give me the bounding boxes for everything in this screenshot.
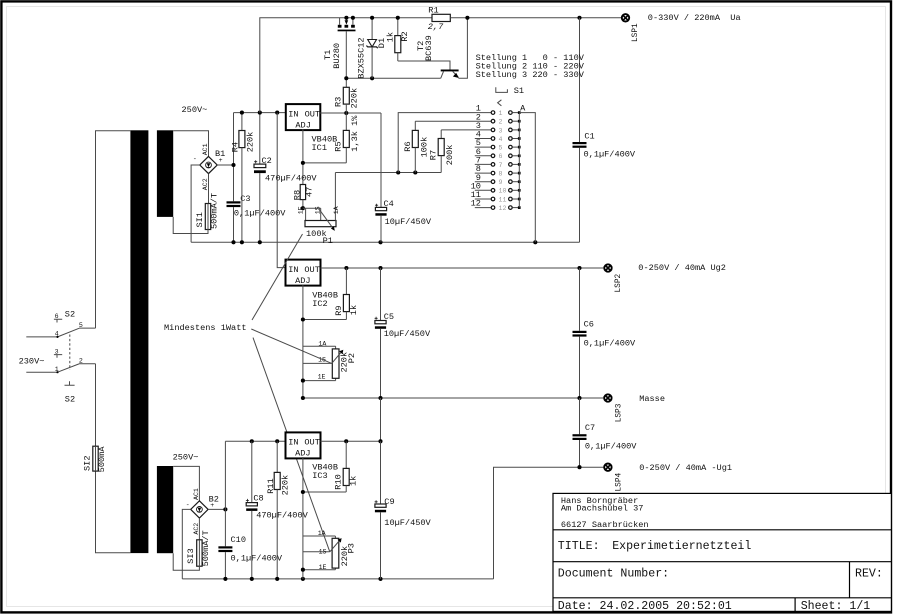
regulator IC2 VB40B bbox=[286, 260, 321, 286]
svg-text:230V~: 230V~ bbox=[19, 357, 45, 367]
svg-text:C6: C6 bbox=[584, 320, 594, 330]
svg-text:Masse: Masse bbox=[639, 394, 665, 404]
svg-text:1E: 1E bbox=[298, 206, 305, 214]
junction bus2 C9 bbox=[378, 577, 382, 581]
wire B1 AC2 to fuse SI1 bbox=[208, 174, 210, 204]
svg-text:TITLE:: TITLE: bbox=[558, 540, 600, 553]
svg-text:Am Dachshübel 37: Am Dachshübel 37 bbox=[561, 503, 644, 513]
svg-text:AC1: AC1 bbox=[202, 143, 209, 155]
switch S2 upper section bbox=[26, 319, 95, 338]
svg-text:R10: R10 bbox=[334, 474, 344, 489]
junction bus C4 bbox=[378, 240, 382, 244]
svg-text:BZX55C12: BZX55C12 bbox=[356, 37, 366, 78]
rail bottom supply bbox=[225, 440, 285, 442]
svg-text:500mA/T: 500mA/T bbox=[201, 530, 211, 566]
svg-text:0,1µF/400V: 0,1µF/400V bbox=[231, 554, 283, 564]
svg-text:R11: R11 bbox=[266, 478, 276, 493]
svg-text:S2: S2 bbox=[65, 395, 75, 405]
svg-text:C7: C7 bbox=[585, 423, 595, 433]
junction gate D1 bbox=[370, 76, 374, 80]
svg-text:P2: P2 bbox=[347, 353, 357, 363]
wire R5 bottom to ADJ bbox=[303, 162, 346, 164]
svg-text:47: 47 bbox=[305, 187, 315, 197]
resistor R9 bbox=[343, 268, 349, 320]
svg-text:S2: S2 bbox=[65, 310, 75, 320]
junction LSP4 C7 bbox=[577, 465, 581, 469]
zener diode D1 BZX55C12 bbox=[366, 18, 377, 79]
label C4 plus mark bbox=[375, 204, 378, 207]
svg-text:10µF/450V: 10µF/450V bbox=[384, 518, 431, 528]
label C9 plus mark bbox=[375, 500, 378, 503]
S1 contact 7 bbox=[475, 156, 521, 169]
junction bus2 C8 bbox=[250, 577, 254, 581]
wire plus riser2 bbox=[224, 441, 226, 546]
junction OUT2 C5 bbox=[378, 266, 382, 270]
junction gate R3 bbox=[344, 76, 348, 80]
svg-text:Date: 24.02.2005 20:52:01: Date: 24.02.2005 20:52:01 bbox=[558, 600, 732, 613]
svg-text:1A: 1A bbox=[318, 530, 326, 537]
svg-text:IC1: IC1 bbox=[312, 143, 327, 153]
capacitor C3 bbox=[227, 201, 241, 242]
wire B2 AC2 to fuse SI3 bbox=[198, 518, 200, 540]
switch S1 rotary selector bbox=[496, 87, 508, 106]
switch S2 lower section bbox=[26, 355, 95, 386]
svg-text:R8: R8 bbox=[292, 190, 302, 200]
svg-text:+: + bbox=[210, 502, 214, 509]
svg-text:1E: 1E bbox=[318, 374, 326, 381]
svg-text:OUT: OUT bbox=[304, 265, 319, 275]
svg-text:LSP4: LSP4 bbox=[615, 472, 623, 491]
svg-text:1A: 1A bbox=[318, 340, 326, 347]
fuse SI3 bbox=[197, 540, 202, 566]
svg-text:470µF/400V: 470µF/400V bbox=[265, 173, 317, 183]
S1 contact 8 bbox=[475, 164, 521, 177]
wire IC2 OUT to LSP2 bbox=[321, 267, 605, 269]
svg-text:IC3: IC3 bbox=[312, 471, 327, 481]
svg-text:10µF/450V: 10µF/450V bbox=[384, 329, 431, 339]
svg-text:1A: 1A bbox=[333, 206, 340, 214]
terminal LSP1 bbox=[622, 14, 629, 21]
svg-text:250V~: 250V~ bbox=[182, 105, 208, 115]
label C8 plus mark bbox=[246, 499, 249, 502]
junction ADJ3 P3 E bbox=[301, 568, 305, 572]
capacitor C2 bbox=[254, 113, 266, 243]
junction rail2 R11 bbox=[275, 439, 279, 443]
S1 contact 3 bbox=[441, 121, 520, 134]
svg-text:8: 8 bbox=[499, 171, 503, 178]
svg-text:200k: 200k bbox=[445, 145, 455, 166]
wire IC1 ADJ bbox=[302, 129, 304, 185]
svg-text:C5: C5 bbox=[384, 312, 394, 322]
junction top R2 bbox=[396, 16, 400, 20]
wire rail riser to top bbox=[260, 18, 433, 113]
capacitor C6 bbox=[573, 268, 587, 398]
wire fuse SI1 to secondary1 bottom bbox=[173, 217, 208, 234]
svg-text:10µF/450V: 10µF/450V bbox=[385, 217, 432, 227]
svg-text:7: 7 bbox=[499, 162, 503, 169]
wire B2 minus to bus2 bbox=[182, 509, 190, 579]
junction Masse C5 C9 riser bbox=[378, 396, 382, 400]
resistor R1 horizontal bbox=[432, 14, 622, 21]
resistor R4 bbox=[239, 113, 245, 243]
svg-text:1k: 1k bbox=[349, 305, 359, 315]
svg-text:REV:: REV: bbox=[855, 568, 883, 581]
svg-text:12: 12 bbox=[499, 205, 507, 212]
resistor R10 bbox=[343, 441, 349, 492]
transformer TR1 secondary winding 1 bbox=[157, 130, 173, 217]
svg-text:R7: R7 bbox=[429, 150, 439, 160]
svg-text:9: 9 bbox=[499, 179, 503, 186]
transformer TR1 secondary winding 2 bbox=[157, 466, 173, 553]
svg-text:R1: R1 bbox=[428, 5, 438, 15]
resistor R7 bbox=[438, 130, 444, 173]
resistor R6 bbox=[412, 121, 418, 172]
junction bus S1 common bbox=[533, 240, 537, 244]
wire B1 plus bbox=[217, 164, 233, 166]
junction ADJ2 P2 E bbox=[301, 379, 305, 383]
svg-text:C9: C9 bbox=[384, 497, 394, 507]
junction plus node2 bbox=[223, 507, 227, 511]
resistor R11 bbox=[274, 441, 280, 579]
svg-text:LSP1: LSP1 bbox=[632, 23, 640, 42]
svg-text:6: 6 bbox=[499, 153, 503, 160]
junction bus2 R11 bbox=[275, 577, 279, 581]
junction top T1 middle bbox=[344, 16, 348, 20]
wire IC3 OUT bbox=[321, 440, 381, 442]
svg-text:R6: R6 bbox=[403, 141, 413, 151]
svg-text:SI1: SI1 bbox=[195, 212, 205, 227]
junction bus C3 bbox=[231, 240, 235, 244]
svg-text:AC1: AC1 bbox=[193, 488, 200, 500]
junction ADJ2 R9 bbox=[301, 317, 305, 321]
pointer line to P1 bbox=[252, 234, 303, 320]
wire B2 plus bbox=[208, 508, 225, 510]
wire secondary1 top to bridge B1 bbox=[173, 131, 208, 157]
svg-text:0,1µF/400V: 0,1µF/400V bbox=[585, 442, 637, 452]
bus minus bottom supply bbox=[182, 578, 493, 580]
wire primary bottom bbox=[96, 471, 131, 553]
svg-text:1k: 1k bbox=[349, 476, 359, 486]
S1 common bus bbox=[518, 113, 520, 208]
wire IC1 OUT bbox=[320, 112, 381, 114]
terminal LSP3 bbox=[604, 394, 611, 401]
junction bus2 P3 bbox=[301, 577, 305, 581]
svg-text:-: - bbox=[193, 156, 197, 163]
S1 contact 5 bbox=[475, 138, 521, 151]
junction OUT2 C6 bbox=[577, 266, 581, 270]
svg-text:SI3: SI3 bbox=[186, 548, 196, 563]
svg-text:0-250V / 40mA -Ug1: 0-250V / 40mA -Ug1 bbox=[639, 463, 732, 473]
svg-text:220k: 220k bbox=[350, 88, 360, 109]
svg-text:2: 2 bbox=[79, 358, 83, 365]
svg-text:R2: R2 bbox=[400, 31, 410, 41]
svg-text:220k: 220k bbox=[245, 132, 255, 153]
junction top D1 bbox=[370, 16, 374, 20]
svg-text:12: 12 bbox=[471, 199, 481, 209]
wire Masse to IC3 OUT bbox=[380, 398, 382, 441]
svg-text:Experimetiernetzteil: Experimetiernetzteil bbox=[612, 540, 751, 553]
svg-text:IN: IN bbox=[288, 438, 298, 448]
svg-text:BU280: BU280 bbox=[332, 43, 342, 69]
svg-text:1S: 1S bbox=[314, 206, 321, 214]
switch S2 mechanical link dashed bbox=[69, 335, 71, 371]
svg-text:500mA: 500mA bbox=[97, 446, 107, 473]
S1 contact 10 bbox=[471, 181, 521, 194]
transformer TR1 primary winding bbox=[130, 130, 148, 553]
svg-text:C10: C10 bbox=[231, 535, 246, 545]
rail 250V top bbox=[234, 112, 286, 114]
capacitor C8 bbox=[246, 441, 257, 579]
junction Masse C6 C7 bbox=[577, 396, 581, 400]
svg-text:0-330V / 220mA Ua: 0-330V / 220mA Ua bbox=[648, 13, 741, 23]
svg-text:C8: C8 bbox=[253, 493, 263, 503]
junction top C1 bbox=[577, 16, 581, 20]
capacitor C7 bbox=[573, 398, 587, 467]
svg-text:6: 6 bbox=[55, 313, 59, 320]
svg-text:470µF/400V: 470µF/400V bbox=[256, 511, 308, 521]
svg-text:Sheet: 1/1: Sheet: 1/1 bbox=[801, 600, 871, 613]
wire R10 bottom to ADJ3 bbox=[303, 491, 346, 493]
svg-text:R5: R5 bbox=[334, 141, 344, 151]
junction Masse P2 bbox=[301, 396, 305, 400]
junction fb S1 row1 bbox=[396, 170, 400, 174]
junction rail2 C8 bbox=[250, 439, 254, 443]
capacitor C4 bbox=[375, 113, 386, 242]
transistor T1 BU280 bbox=[338, 18, 356, 79]
svg-text:11: 11 bbox=[499, 196, 507, 203]
junction fb R6 bbox=[413, 170, 417, 174]
fuse SI2 bbox=[93, 446, 98, 471]
S1 contact 4 bbox=[475, 130, 521, 143]
svg-text:500mA/T: 500mA/T bbox=[209, 193, 219, 229]
svg-text:Document Number:: Document Number: bbox=[558, 568, 669, 581]
svg-text:IC2: IC2 bbox=[312, 299, 327, 309]
terminal LSP2 bbox=[604, 264, 611, 271]
S1 contact 12 bbox=[471, 199, 521, 212]
label C2 plus mark bbox=[254, 160, 257, 163]
resistor R2 bbox=[395, 18, 401, 61]
svg-text:3: 3 bbox=[55, 348, 59, 355]
junction plus node bbox=[231, 163, 235, 167]
svg-text:1S: 1S bbox=[319, 549, 327, 556]
fuse SI1 bbox=[205, 204, 210, 230]
svg-text:2,7: 2,7 bbox=[428, 22, 444, 32]
bridge rectifier B2 bbox=[191, 501, 208, 518]
svg-text:OUT: OUT bbox=[305, 109, 320, 119]
svg-text:1,3k 1%: 1,3k 1% bbox=[350, 115, 360, 152]
wire R9 bottom to ADJ2 bbox=[303, 319, 347, 321]
svg-text:LSP3: LSP3 bbox=[615, 403, 623, 422]
junction OUT3 Masse riser bbox=[378, 439, 382, 443]
junction rail R4 bbox=[240, 111, 244, 115]
svg-text:10: 10 bbox=[499, 188, 507, 195]
svg-text:220k: 220k bbox=[281, 475, 291, 496]
svg-text:3: 3 bbox=[499, 127, 503, 134]
svg-text:OUT: OUT bbox=[304, 438, 319, 448]
svg-text:250V~: 250V~ bbox=[173, 452, 199, 462]
svg-text:5: 5 bbox=[499, 145, 503, 152]
svg-text:AC2: AC2 bbox=[202, 178, 209, 190]
junction OUT3 R10 bbox=[344, 439, 348, 443]
svg-text:R4: R4 bbox=[231, 142, 241, 152]
potentiometer P2 bbox=[303, 346, 343, 380]
S1 contact 6 bbox=[475, 147, 521, 160]
resistor R5 bbox=[343, 113, 349, 163]
svg-text:R3: R3 bbox=[334, 97, 344, 107]
S1 contact 9 bbox=[475, 173, 521, 186]
junction bus2 C10 bbox=[223, 577, 227, 581]
svg-text:ADJ: ADJ bbox=[295, 276, 310, 286]
svg-text:Mindestens 1Watt: Mindestens 1Watt bbox=[164, 323, 247, 333]
svg-text:-: - bbox=[186, 501, 190, 508]
svg-text:1k: 1k bbox=[385, 32, 395, 42]
svg-text:Stellung 3 220 - 330V: Stellung 3 220 - 330V bbox=[476, 70, 585, 80]
wire Masse bus bbox=[303, 397, 605, 399]
svg-text:C4: C4 bbox=[384, 199, 394, 209]
junction ADJ R5 bbox=[301, 161, 305, 165]
resistor R8 bbox=[300, 185, 305, 209]
svg-text:P1: P1 bbox=[323, 236, 333, 246]
junction OUT R3 R5 bbox=[344, 111, 348, 115]
pointer line to P3 bbox=[253, 338, 330, 552]
svg-text:0,1µF/400V: 0,1µF/400V bbox=[584, 338, 636, 348]
svg-text:BC639: BC639 bbox=[424, 35, 434, 61]
capacitor C5 bbox=[375, 268, 386, 398]
title block bbox=[553, 493, 891, 611]
wire IC3 ADJ riser bbox=[302, 457, 304, 579]
svg-text:66127 Saarbrücken: 66127 Saarbrücken bbox=[561, 520, 649, 530]
wire B1 minus to bus bbox=[191, 165, 200, 242]
svg-text:S1: S1 bbox=[514, 86, 524, 96]
svg-text:1: 1 bbox=[499, 110, 503, 117]
svg-text:+: + bbox=[219, 157, 223, 164]
svg-text:P3: P3 bbox=[347, 543, 357, 553]
svg-text:0-250V / 40mA Ug2: 0-250V / 40mA Ug2 bbox=[638, 263, 726, 273]
S1 contact 11 bbox=[471, 190, 521, 203]
pointer line to P2 bbox=[251, 329, 331, 363]
wire bus2 to LSP4 bbox=[494, 467, 605, 579]
feedback bus wire bbox=[335, 172, 441, 174]
svg-text:1E: 1E bbox=[319, 564, 327, 571]
junction R8 P1 wiper bbox=[301, 206, 305, 210]
svg-text:R9: R9 bbox=[334, 305, 344, 315]
junction OUT2 R9 bbox=[344, 266, 348, 270]
svg-text:C2: C2 bbox=[262, 156, 272, 166]
S1 contact 1 bbox=[398, 104, 520, 173]
svg-text:4: 4 bbox=[499, 136, 503, 143]
svg-text:1: 1 bbox=[55, 366, 59, 373]
junction top T2 emitter bbox=[465, 16, 469, 20]
wire node plus riser with C3 bbox=[233, 113, 235, 202]
svg-text:0,1µF/400V: 0,1µF/400V bbox=[584, 149, 636, 159]
terminal LSP4 bbox=[604, 464, 611, 471]
wire rail to IC2 IN bbox=[277, 113, 285, 268]
wire S1 common A bbox=[519, 113, 535, 243]
potentiometer P1 bbox=[303, 173, 336, 231]
capacitor C10 bbox=[218, 546, 232, 579]
svg-text:LSP2: LSP2 bbox=[615, 273, 623, 292]
capacitor C1 bbox=[573, 18, 587, 243]
junction rail IC2 feed bbox=[275, 111, 279, 115]
svg-text:ADJ: ADJ bbox=[295, 120, 310, 130]
junction ADJ3 R10 bbox=[301, 490, 305, 494]
svg-text:5: 5 bbox=[79, 322, 83, 329]
gate wire T1 to T2 bbox=[346, 77, 440, 79]
bridge rectifier B1 bbox=[200, 156, 217, 173]
transistor T2 BC639 bbox=[441, 18, 468, 79]
wire S2 lower to fuse SI2 bbox=[95, 364, 97, 446]
regulator IC3 VB40B bbox=[286, 432, 321, 458]
potentiometer P3 bbox=[303, 536, 342, 570]
junction bus R4 bbox=[240, 240, 244, 244]
svg-text:IN: IN bbox=[288, 109, 298, 119]
label C5 plus mark bbox=[375, 317, 378, 320]
wire IC2 ADJ riser bbox=[302, 285, 304, 398]
wire fuse SI3 to secondary2 bottom bbox=[173, 553, 199, 570]
svg-text:C1: C1 bbox=[584, 131, 594, 141]
junction bus C2 bbox=[258, 240, 262, 244]
capacitor C9 bbox=[375, 441, 386, 579]
junction top T1 right bbox=[351, 16, 355, 20]
svg-text:4: 4 bbox=[55, 331, 59, 338]
resistor R3 bbox=[343, 78, 349, 113]
wire R2 to T2 base bbox=[398, 61, 450, 70]
svg-text:SI2: SI2 bbox=[83, 456, 93, 471]
svg-text:A: A bbox=[520, 104, 526, 114]
wire secondary2 top to bridge B2 bbox=[173, 466, 199, 500]
svg-text:AC2: AC2 bbox=[193, 523, 200, 535]
svg-text:2: 2 bbox=[499, 119, 503, 126]
bus minus top supply bbox=[191, 241, 579, 243]
S1 contact 2 bbox=[415, 112, 520, 125]
junction rail C2 bbox=[258, 111, 262, 115]
regulator IC1 VB40B bbox=[286, 104, 321, 130]
svg-text:IN: IN bbox=[288, 265, 298, 275]
wire primary top bbox=[96, 131, 131, 328]
